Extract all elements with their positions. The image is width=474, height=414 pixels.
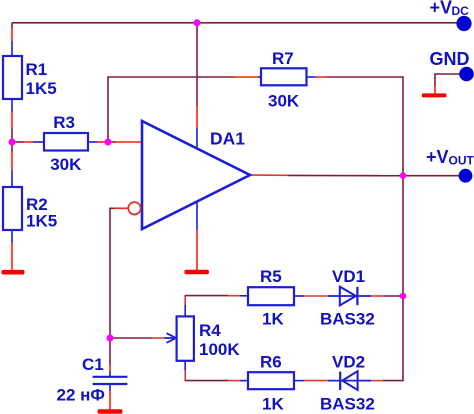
resistor R7 [261,49,307,111]
svg-text:BAS32: BAS32 [320,395,375,414]
op-amp DA1 [142,121,250,229]
wire C1 bottom lead to ground [109,385,111,410]
resistor R6 [248,353,294,414]
svg-text:+V: +V [426,147,449,167]
capacitor C1 [57,355,128,405]
wire VD1 node down and corner to VD2 [371,296,403,381]
node VD1 cathode [400,293,407,300]
diode VD2 [320,353,375,414]
svg-text:1K: 1K [262,310,284,329]
wire R1 top lead [11,28,13,56]
wire node B down to C1 [109,338,111,376]
svg-text:VD2: VD2 [332,353,365,372]
svg-text:1K5: 1K5 [26,79,57,98]
diode VD1 [320,267,375,329]
wire VD1 right lead [371,295,403,297]
resistor R3 [44,113,88,174]
resistor R1 [3,56,57,99]
svg-text:R3: R3 [53,113,75,132]
svg-text:DC: DC [452,4,470,18]
wire output node to +VOUT terminal [403,175,460,177]
wire R7 right to output column [307,77,404,176]
svg-text:30K: 30K [50,155,82,174]
wire output column down to VD1 node [402,176,404,296]
wire R2 top lead [11,142,13,187]
svg-text:+V: +V [430,0,453,18]
terminal GND [430,49,474,81]
wire R3 right to node A [88,141,108,143]
ground (R2) [2,270,25,275]
terminal +VDC [430,0,472,31]
svg-text:1K5: 1K5 [26,212,57,231]
potentiometer R4 [177,316,241,360]
wire op-amp bottom pin to ground [196,202,198,270]
svg-text:22 нФ: 22 нФ [57,386,105,405]
op-amp inverting bubble [128,202,140,214]
terminal +VOUT [426,147,474,183]
svg-text:C1: C1 [82,355,104,374]
svg-text:DA1: DA1 [210,129,245,149]
svg-text:R4: R4 [199,321,221,340]
wire inverting input [110,208,128,339]
svg-text:BAS32: BAS32 [320,310,375,329]
svg-text:R5: R5 [260,267,282,286]
svg-text:1K: 1K [262,395,284,414]
ground (op-amp) [184,270,209,275]
wire node to R3 left [12,141,44,143]
svg-text:R1: R1 [26,60,48,79]
node B inverting C1 R4 junction [107,335,114,342]
svg-text:R7: R7 [272,49,294,68]
svg-text:OUT: OUT [449,153,474,167]
potentiometer R4 wiper arrowhead [167,333,177,343]
wire R4 bottom lead to R6 [185,361,248,382]
wire R2 bottom lead to ground [11,230,13,270]
node output [400,172,407,179]
wire supply pin from top rail to op-amp [196,23,198,149]
svg-text:30K: 30K [268,92,300,111]
node top rail supply [194,19,201,26]
svg-text:100K: 100K [199,340,240,359]
wire op-amp output [250,174,403,177]
wire left column top corner [11,23,13,28]
ground (GND terminal) [422,93,447,97]
wire R5 right to VD1 [294,295,328,297]
ground (C1) [98,409,123,413]
wire node B to R4 wiper arrow [110,337,176,339]
svg-text:R6: R6 [260,353,282,372]
wire GND terminal to ground symbol [435,74,460,94]
node R1 R2 R3 junction [9,139,16,146]
wire R6 right to VD2 [294,380,328,382]
wire top rail [12,22,458,24]
svg-text:VD1: VD1 [332,267,365,286]
wire R4 top lead to R5 [185,295,248,317]
svg-text:GND: GND [430,49,470,69]
resistor R5 [248,267,294,329]
resistor R2 [3,187,57,231]
wire node A to op-amp noninverting input [108,141,142,143]
wire node A up and right to R7 [108,77,261,142]
wire R1 bottom lead [11,99,13,142]
node A noninverting input [105,139,112,146]
